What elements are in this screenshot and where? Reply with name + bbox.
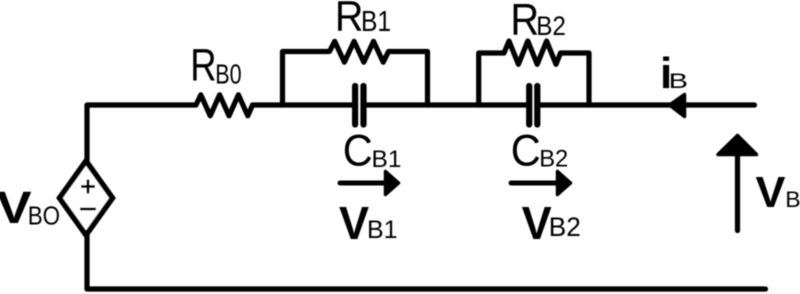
svg-text:BO: BO	[28, 202, 60, 231]
svg-text:B: B	[669, 69, 688, 93]
svg-text:B1: B1	[367, 216, 398, 244]
svg-text:V: V	[522, 198, 553, 250]
svg-text:B2: B2	[539, 145, 568, 172]
svg-text:B2: B2	[536, 12, 566, 41]
svg-text:C: C	[511, 126, 541, 176]
svg-text:V: V	[756, 168, 786, 217]
svg-text:R: R	[190, 40, 216, 91]
svg-text:R: R	[335, 0, 364, 40]
svg-text:V: V	[339, 198, 370, 250]
svg-text:C: C	[343, 126, 373, 176]
svg-text:B2: B2	[549, 212, 581, 242]
svg-text:B0: B0	[215, 59, 241, 90]
svg-text:B1: B1	[372, 146, 402, 173]
svg-text:B: B	[785, 188, 800, 212]
svg-text:R: R	[510, 0, 539, 44]
svg-text:B1: B1	[361, 5, 391, 37]
